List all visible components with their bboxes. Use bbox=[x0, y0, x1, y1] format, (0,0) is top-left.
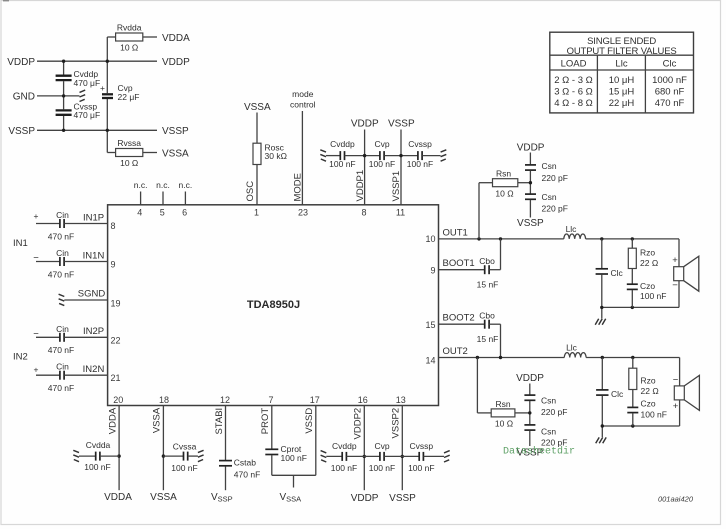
svg-text:VDDA: VDDA bbox=[162, 33, 190, 44]
svg-text:Csn: Csn bbox=[541, 395, 556, 405]
svg-text:100 nF: 100 nF bbox=[641, 410, 667, 420]
svg-text:GND: GND bbox=[13, 92, 35, 103]
svg-text:2 Ω - 3 Ω: 2 Ω - 3 Ω bbox=[554, 75, 593, 86]
svg-text:OUT1: OUT1 bbox=[443, 227, 468, 238]
svg-text:VSSP: VSSP bbox=[389, 493, 416, 504]
svg-text:Rzo: Rzo bbox=[641, 376, 656, 386]
svg-text:470 nF: 470 nF bbox=[234, 469, 260, 479]
svg-text:Llc: Llc bbox=[615, 58, 627, 69]
svg-text:10 Ω: 10 Ω bbox=[495, 418, 513, 428]
svg-text:IN2P: IN2P bbox=[83, 326, 104, 337]
svg-text:8: 8 bbox=[111, 221, 116, 231]
svg-text:470 nF: 470 nF bbox=[48, 383, 74, 393]
svg-text:100 nF: 100 nF bbox=[408, 463, 434, 473]
svg-text:OUTPUT FILTER VALUES: OUTPUT FILTER VALUES bbox=[567, 46, 677, 57]
svg-text:20: 20 bbox=[113, 395, 123, 405]
svg-text:LOAD: LOAD bbox=[561, 58, 587, 69]
svg-text:4 Ω - 8 Ω: 4 Ω - 8 Ω bbox=[554, 98, 593, 109]
svg-text:VDDP: VDDP bbox=[516, 373, 544, 384]
svg-text:VDDP: VDDP bbox=[162, 57, 190, 68]
svg-text:TDA8950J: TDA8950J bbox=[247, 299, 300, 311]
svg-text:14: 14 bbox=[425, 355, 435, 365]
svg-text:Cvdda: Cvdda bbox=[86, 440, 111, 450]
svg-text:VSSD: VSSD bbox=[304, 408, 315, 434]
svg-text:Cin: Cin bbox=[56, 324, 69, 334]
svg-text:22 μF: 22 μF bbox=[118, 92, 140, 102]
svg-text:100 nF: 100 nF bbox=[407, 159, 433, 169]
svg-text:1000 nF: 1000 nF bbox=[652, 75, 687, 86]
svg-text:6: 6 bbox=[182, 208, 187, 218]
svg-text:VSSP: VSSP bbox=[8, 126, 35, 137]
svg-text:220 pF: 220 pF bbox=[542, 173, 568, 183]
svg-text:−: − bbox=[673, 375, 679, 386]
svg-text:VSSP: VSSP bbox=[162, 126, 189, 137]
svg-text:OUT2: OUT2 bbox=[443, 346, 468, 357]
svg-text:22 Ω: 22 Ω bbox=[640, 258, 658, 268]
svg-text:18: 18 bbox=[159, 395, 169, 405]
svg-text:100 nF: 100 nF bbox=[369, 159, 395, 169]
svg-text:VDDP: VDDP bbox=[351, 493, 379, 504]
svg-text:100 nF: 100 nF bbox=[369, 463, 395, 473]
svg-text:15 nF: 15 nF bbox=[477, 334, 499, 344]
svg-text:15 μH: 15 μH bbox=[609, 86, 635, 97]
svg-text:8: 8 bbox=[361, 208, 366, 218]
svg-text:VDDA: VDDA bbox=[107, 407, 118, 434]
svg-text:Llc: Llc bbox=[566, 224, 578, 234]
svg-text:SGND: SGND bbox=[78, 288, 106, 299]
svg-text:100 nF: 100 nF bbox=[84, 462, 110, 472]
svg-text:VSSP1: VSSP1 bbox=[391, 171, 402, 202]
svg-text:220 pF: 220 pF bbox=[542, 203, 568, 213]
svg-text:9: 9 bbox=[111, 260, 116, 270]
svg-text:Cvp: Cvp bbox=[374, 139, 389, 149]
svg-text:11: 11 bbox=[396, 208, 405, 218]
svg-text:mode: mode bbox=[292, 89, 314, 99]
svg-text:Csn: Csn bbox=[542, 192, 557, 202]
svg-text:13: 13 bbox=[396, 395, 406, 405]
svg-text:12: 12 bbox=[220, 395, 230, 405]
svg-text:BOOT2: BOOT2 bbox=[443, 313, 475, 324]
svg-text:Cin: Cin bbox=[56, 210, 69, 220]
svg-text:VDDP1: VDDP1 bbox=[355, 170, 366, 202]
svg-text:Rsn: Rsn bbox=[495, 399, 510, 409]
svg-text:VDDP: VDDP bbox=[7, 57, 35, 68]
svg-text:Cvddp: Cvddp bbox=[332, 441, 357, 451]
svg-text:Cbo: Cbo bbox=[479, 256, 495, 266]
svg-text:470 nF: 470 nF bbox=[48, 231, 74, 241]
svg-text:Clc: Clc bbox=[611, 268, 624, 278]
svg-text:17: 17 bbox=[310, 395, 320, 405]
svg-text:VDDP: VDDP bbox=[517, 142, 545, 153]
svg-text:MODE: MODE bbox=[293, 173, 304, 202]
svg-text:23: 23 bbox=[298, 208, 308, 218]
svg-text:VSSA: VSSA bbox=[162, 148, 189, 159]
svg-text:VSSA: VSSA bbox=[280, 492, 302, 504]
svg-text:VSSP: VSSP bbox=[388, 119, 415, 130]
svg-text:Rzo: Rzo bbox=[640, 247, 655, 257]
svg-text:Cin: Cin bbox=[56, 248, 69, 258]
svg-text:22: 22 bbox=[111, 335, 121, 345]
svg-text:VSSA: VSSA bbox=[244, 102, 271, 113]
svg-text:7: 7 bbox=[268, 395, 273, 405]
svg-text:Llc: Llc bbox=[566, 343, 578, 353]
svg-text:5: 5 bbox=[160, 208, 165, 218]
svg-text:control: control bbox=[290, 100, 316, 110]
svg-text:15: 15 bbox=[425, 320, 435, 330]
svg-text:VSSP2: VSSP2 bbox=[391, 408, 402, 439]
svg-text:Clc: Clc bbox=[611, 389, 624, 399]
svg-text:100 nF: 100 nF bbox=[171, 463, 197, 473]
svg-text:220 pF: 220 pF bbox=[541, 407, 567, 417]
svg-text:VSSP: VSSP bbox=[517, 218, 544, 229]
svg-text:VDDP2: VDDP2 bbox=[353, 408, 364, 440]
svg-text:15 nF: 15 nF bbox=[477, 280, 499, 290]
svg-text:PROT: PROT bbox=[260, 408, 271, 435]
svg-text:22 μH: 22 μH bbox=[609, 98, 635, 109]
svg-text:Cvp: Cvp bbox=[374, 441, 389, 451]
svg-text:4: 4 bbox=[137, 208, 142, 218]
svg-text:IN1N: IN1N bbox=[83, 250, 105, 261]
svg-text:VDDP: VDDP bbox=[351, 119, 379, 130]
svg-text:100 nF: 100 nF bbox=[329, 159, 355, 169]
svg-text:Cvssp: Cvssp bbox=[408, 139, 432, 149]
svg-text:100 nF: 100 nF bbox=[281, 453, 307, 463]
svg-text:−: − bbox=[672, 280, 678, 291]
svg-text:IN1P: IN1P bbox=[83, 212, 104, 223]
svg-text:Czo: Czo bbox=[641, 399, 656, 409]
svg-text:OSC: OSC bbox=[245, 181, 256, 202]
svg-text:STABI: STABI bbox=[214, 408, 225, 435]
svg-text:+: + bbox=[672, 255, 678, 266]
svg-text:Datasheetdir: Datasheetdir bbox=[503, 446, 575, 458]
svg-text:VSSA: VSSA bbox=[150, 492, 177, 503]
svg-text:680 nF: 680 nF bbox=[655, 86, 685, 97]
svg-text:BOOT1: BOOT1 bbox=[443, 258, 475, 269]
svg-text:IN2N: IN2N bbox=[83, 364, 105, 375]
svg-text:Csn: Csn bbox=[542, 161, 557, 171]
svg-text:Cbo: Cbo bbox=[479, 311, 495, 321]
svg-text:3 Ω - 6 Ω: 3 Ω - 6 Ω bbox=[554, 86, 593, 97]
svg-text:Cvddp: Cvddp bbox=[330, 139, 355, 149]
svg-text:Cstab: Cstab bbox=[234, 457, 256, 467]
svg-text:Csn: Csn bbox=[541, 426, 556, 436]
svg-text:470 nF: 470 nF bbox=[655, 98, 685, 109]
svg-text:VSSP: VSSP bbox=[211, 492, 233, 504]
svg-text:IN2: IN2 bbox=[13, 352, 28, 363]
svg-text:VSSA: VSSA bbox=[152, 407, 163, 433]
svg-text:100 nF: 100 nF bbox=[640, 291, 666, 301]
svg-text:+: + bbox=[34, 365, 39, 375]
svg-text:Czo: Czo bbox=[640, 281, 655, 291]
svg-text:30 kΩ: 30 kΩ bbox=[265, 151, 287, 161]
svg-text:+: + bbox=[34, 211, 39, 221]
svg-text:001aai420: 001aai420 bbox=[658, 494, 694, 503]
svg-text:Cvssp: Cvssp bbox=[409, 441, 433, 451]
svg-text:1: 1 bbox=[254, 208, 259, 218]
svg-text:22 Ω: 22 Ω bbox=[641, 386, 659, 396]
svg-text:470 μF: 470 μF bbox=[74, 110, 101, 120]
svg-text:16: 16 bbox=[358, 395, 368, 405]
svg-text:Clc: Clc bbox=[663, 58, 677, 69]
svg-text:10 μH: 10 μH bbox=[609, 75, 635, 86]
svg-text:+: + bbox=[673, 401, 679, 412]
svg-text:19: 19 bbox=[111, 299, 121, 309]
svg-text:+: + bbox=[100, 83, 105, 93]
svg-text:10: 10 bbox=[425, 234, 435, 244]
svg-text:VDDA: VDDA bbox=[104, 492, 132, 503]
svg-text:21: 21 bbox=[111, 373, 121, 383]
svg-text:Cvssa: Cvssa bbox=[173, 442, 197, 452]
svg-text:470 nF: 470 nF bbox=[48, 345, 74, 355]
svg-text:n.c.: n.c. bbox=[179, 180, 193, 190]
svg-text:n.c.: n.c. bbox=[134, 180, 148, 190]
svg-text:9: 9 bbox=[430, 266, 435, 276]
svg-text:Rvssa: Rvssa bbox=[117, 138, 141, 148]
svg-text:IN1: IN1 bbox=[13, 238, 28, 249]
svg-text:10 Ω: 10 Ω bbox=[120, 43, 138, 53]
svg-text:100 nF: 100 nF bbox=[331, 463, 357, 473]
svg-text:470 nF: 470 nF bbox=[48, 269, 74, 279]
svg-text:10 Ω: 10 Ω bbox=[495, 189, 513, 199]
svg-text:470 μF: 470 μF bbox=[74, 78, 101, 88]
svg-text:10 Ω: 10 Ω bbox=[120, 158, 138, 168]
svg-text:n.c.: n.c. bbox=[156, 180, 170, 190]
svg-text:Cin: Cin bbox=[56, 362, 69, 372]
svg-text:Rvdda: Rvdda bbox=[117, 23, 142, 33]
svg-text:Rsn: Rsn bbox=[496, 169, 511, 179]
